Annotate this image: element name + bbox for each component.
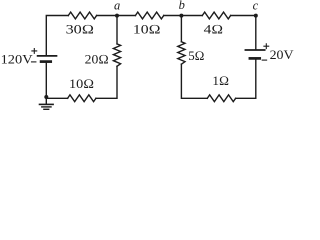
node c junction dot [254,14,258,18]
svg-text:a: a [114,0,120,13]
minus sign of 20V source [262,59,266,61]
plus sign of 120V source [32,49,37,54]
svg-text:20Ω: 20Ω [85,52,109,67]
ground bar 2 [42,106,51,108]
resistor 1ohm bottom-right [207,95,235,102]
svg-text:10Ω: 10Ω [69,76,94,91]
resistor 30ohm top-left [68,12,96,19]
resistor 20ohm vertical at node a [113,44,120,66]
battery 20V negative plate [250,57,260,60]
minus sign of 120V source [32,61,36,63]
battery 120V negative plate [41,60,51,63]
battery 20V positive plate [245,49,264,51]
resistor 10ohm top-middle [135,12,163,19]
svg-text:c: c [253,0,259,13]
svg-text:b: b [179,0,185,12]
ground bar 3 [44,108,49,110]
wire 20V battery to bottom-right rail [236,60,256,99]
wire node b to 4ohm [181,15,202,17]
wire 30ohm to node a [97,15,117,17]
wire 20ohm down to bottom-left rail [96,66,117,98]
ground bar 1 [40,103,54,105]
svg-text:30Ω: 30Ω [66,21,95,36]
wire top-left corner to 30ohm [46,16,68,56]
wire node a down to 20ohm [116,16,118,44]
battery 120V positive plate [38,55,57,57]
svg-text:20V: 20V [270,47,295,62]
wire 1ohm to 5ohm branch bottom [181,64,207,98]
resistor 5ohm vertical at node b [178,42,185,64]
svg-text:10Ω: 10Ω [133,21,161,36]
ground stem [45,97,47,104]
wire node a to 10ohm [117,15,135,17]
resistor 4ohm top-right [202,12,230,19]
plus sign of 20V source [264,44,269,49]
node b junction dot [179,14,183,18]
wire 10ohm to node b [164,15,182,17]
svg-text:4Ω: 4Ω [204,21,224,36]
svg-text:5Ω: 5Ω [188,48,204,63]
node a junction dot [115,14,119,18]
wire 120V battery to ground junction [45,63,47,99]
wire node b down to 5ohm [180,16,182,42]
wire 4ohm to node c [231,15,256,17]
wire node c down to 20V battery [255,16,257,50]
svg-text:1Ω: 1Ω [212,73,229,88]
wire 10ohm to ground junction [46,97,67,99]
svg-text:120V: 120V [1,52,34,67]
ground junction dot [44,95,48,99]
resistor 10ohm bottom-left [68,95,96,102]
